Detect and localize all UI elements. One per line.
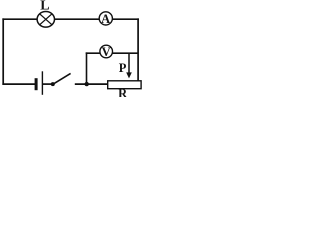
svg-text:A: A (101, 12, 110, 26)
battery cell: thick short plate (negative) (35, 78, 38, 90)
rheostat R: resistance box (108, 81, 141, 89)
switch S: pivot dot (51, 82, 55, 86)
wire: left vertical (2, 18, 4, 85)
battery cell: thin long plate (positive) (42, 71, 43, 95)
junction node (voltmeter tap on bottom wire) (85, 82, 89, 86)
svg-text:L: L (40, 0, 49, 14)
lamp L (circle with X) (37, 11, 54, 27)
wire: voltmeter branch vertical down to junction (86, 52, 88, 84)
wire: voltmeter branch horizontal (86, 52, 138, 54)
rheostat slider arrow P: head (126, 72, 132, 78)
wire: switch right contact to resistor box (75, 83, 109, 85)
wire: top horizontal (battery+ to lamp to ammeter to top-right corner) (2, 18, 139, 20)
svg-text:R: R (118, 87, 128, 97)
switch S: open lever (53, 73, 71, 84)
wire: battery to switch pivot (43, 83, 53, 85)
svg-text:P: P (119, 61, 127, 75)
ammeter U1 (circle A) (99, 12, 112, 25)
voltmeter U2 (circle V) (100, 45, 113, 58)
rheostat slider arrow P: stem (128, 53, 130, 74)
wire: bottom horizontal left (battery to corner) (2, 83, 35, 85)
svg-text:V: V (102, 45, 111, 59)
wire: right vertical (top-right corner down to resistor box) (137, 18, 139, 81)
